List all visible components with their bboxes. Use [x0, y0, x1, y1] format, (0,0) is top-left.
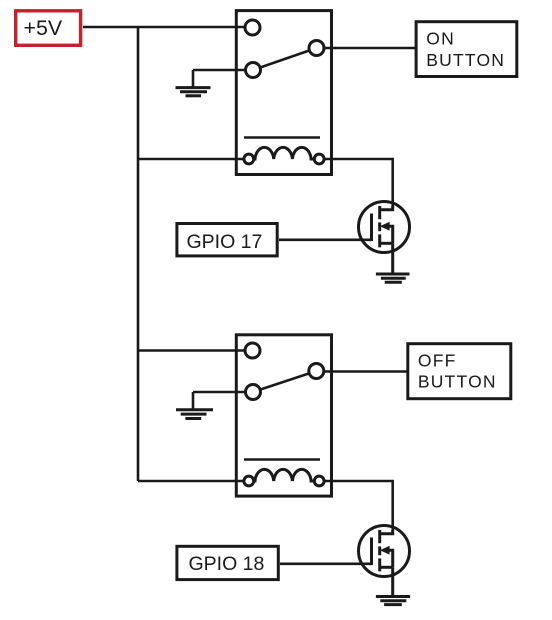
transistor Q1 (N-MOSFET) — [359, 202, 410, 275]
Q2 body-source connection — [385, 550, 393, 567]
relay K1 switch armature — [253, 48, 317, 70]
svg-text:BUTTON: BUTTON — [426, 50, 505, 70]
Q2 drain bar — [380, 530, 393, 534]
svg-text:BUTTON: BUTTON — [418, 371, 497, 391]
wire relay K2 coil to Q2 drain — [324, 481, 393, 534]
relay K1 coil separator bar — [244, 136, 320, 139]
Q2 channel dash bottom — [378, 558, 381, 571]
wire trunk to relay K1 coil pin — [138, 158, 246, 161]
relay K1 pin COM circle — [245, 20, 260, 35]
Q1 channel dash bottom — [378, 234, 381, 247]
Q1 drain bar — [380, 206, 393, 210]
wire ground to relay K1 pin NC — [193, 69, 249, 72]
Q2 source lead — [391, 567, 394, 596]
node ON BUTTON box — [416, 22, 517, 77]
ground G1 (relay K1 NC) — [176, 70, 211, 96]
Q2 source bar — [380, 566, 393, 569]
svg-text:GPIO 18: GPIO 18 — [189, 553, 265, 575]
Q1 body-source connection — [385, 226, 393, 243]
relay K1 coil pin right circle — [314, 154, 324, 164]
Q1 channel dash middle — [378, 222, 381, 231]
Q2 channel dash middle — [378, 546, 381, 555]
wire +5V to relay K1 pin COM — [83, 26, 249, 29]
relay K2 coil inductor — [254, 469, 313, 481]
node GPIO 18 box — [177, 546, 278, 579]
node GPIO 17 box — [177, 224, 277, 256]
ground G4 (Q2 source) — [376, 597, 410, 605]
wire relay K1 NO to ON BUTTON — [324, 47, 416, 50]
node OFF BUTTON box — [408, 344, 511, 399]
ground G3 (relay K2 NC) — [176, 392, 213, 419]
Q2 substrate arrow — [380, 546, 390, 555]
Q1 source lead — [391, 243, 394, 274]
relay K2 pin NO circle — [309, 364, 324, 379]
wire GPIO 17 to Q1 gate — [279, 239, 372, 242]
wire trunk to relay K2 pin COM — [138, 349, 246, 352]
relay K1 pin NO circle — [309, 41, 324, 56]
wire relay K1 coil to Q1 drain — [324, 159, 393, 210]
relay K2 pin COM circle — [245, 343, 260, 358]
relay K2 body — [236, 335, 331, 496]
relay K1 body — [236, 11, 331, 175]
transistor Q2 (N-MOSFET) — [359, 526, 410, 597]
Q2 body circle — [359, 526, 410, 577]
svg-text:OFF: OFF — [418, 351, 457, 371]
Q1 gate bar — [370, 214, 373, 242]
relay K2 coil pin right circle — [314, 476, 324, 486]
Q1 source bar — [380, 242, 393, 245]
wire GPIO 18 to Q2 gate — [280, 562, 372, 565]
Q1 body circle — [359, 202, 410, 253]
Q2 gate bar — [370, 538, 373, 566]
wire relay K2 NO to OFF BUTTON — [324, 370, 408, 373]
relay K1 coil inductor — [254, 147, 313, 159]
relay K1 pin NC circle — [246, 63, 261, 78]
wire ground to relay K2 pin NC — [193, 391, 249, 394]
Q1 substrate arrow — [380, 222, 390, 231]
relay K2 coil pin left circle — [244, 476, 254, 486]
wire +5V trunk vertical — [137, 27, 140, 481]
relay K2 coil separator bar — [244, 458, 320, 461]
svg-text:GPIO 17: GPIO 17 — [187, 231, 263, 253]
relay K2 pin NC circle — [246, 385, 261, 400]
relay K2 switch armature — [253, 371, 316, 392]
ground G2 (Q1 source) — [376, 274, 410, 282]
svg-text:ON: ON — [426, 28, 455, 48]
node +5V supply box — [16, 11, 81, 46]
Q1 channel dash top — [378, 206, 381, 219]
svg-text:+5V: +5V — [24, 16, 63, 40]
Q2 channel dash top — [378, 530, 381, 543]
relay K1 coil pin left circle — [244, 154, 254, 164]
wire trunk to relay K2 coil pin — [138, 480, 246, 483]
